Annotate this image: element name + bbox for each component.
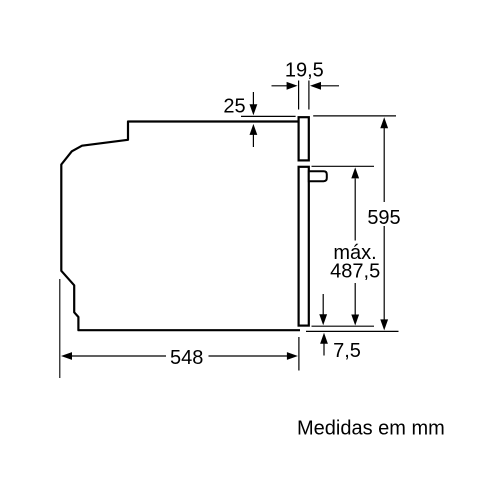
svg-text:19,5: 19,5 bbox=[285, 60, 324, 82]
svg-text:487,5: 487,5 bbox=[330, 260, 380, 282]
svg-text:7,5: 7,5 bbox=[333, 340, 361, 362]
svg-text:595: 595 bbox=[367, 207, 400, 229]
svg-text:25: 25 bbox=[223, 96, 245, 118]
svg-text:548: 548 bbox=[170, 347, 203, 369]
svg-text:Medidas em mm: Medidas em mm bbox=[297, 418, 445, 440]
